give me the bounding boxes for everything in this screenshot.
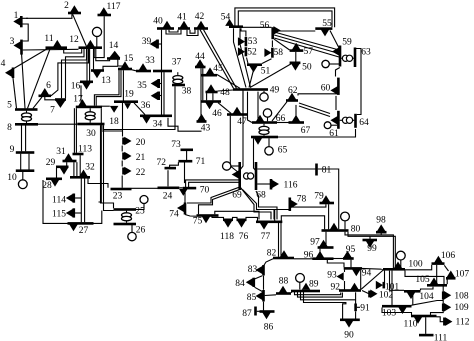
svg-text:72: 72 [157, 158, 167, 168]
bus 63 [354, 48, 357, 68]
load arrow 59 [332, 47, 339, 56]
bus 59 [339, 46, 342, 67]
wire 103-104b [412, 292, 414, 305]
wire 76-77 [246, 217, 258, 221]
svg-text:80: 80 [351, 224, 361, 234]
wire 91-90 [355, 311, 357, 318]
wire 89-92b [298, 291, 343, 297]
wire 18-19w [102, 130, 122, 132]
wire 56-59c [274, 38, 339, 57]
bus 85 [262, 290, 265, 302]
wire 100-103 [391, 271, 393, 306]
svg-text:2: 2 [64, 1, 69, 11]
svg-text:10: 10 [7, 173, 17, 183]
wire 60-62 [298, 94, 338, 96]
wire 6-7 [45, 97, 55, 100]
load arrow 31 [64, 153, 73, 160]
wire 25-27 [94, 211, 102, 224]
bus 107 [446, 277, 456, 280]
svg-text:22: 22 [136, 168, 146, 178]
wire 55-56 [274, 30, 315, 32]
load arrow 85 [256, 292, 263, 301]
load arrow 107 [447, 271, 456, 278]
wire 62-66 [272, 102, 287, 121]
svg-text:12: 12 [69, 35, 79, 45]
bus 102 [368, 291, 371, 298]
svg-text:104: 104 [419, 292, 434, 302]
load arrow 41 [180, 21, 189, 28]
load arrow 78 [291, 200, 298, 209]
wire 100-105 [405, 271, 444, 286]
svg-text:25: 25 [135, 207, 145, 217]
wire 77-82a [278, 223, 280, 257]
bus 108 [442, 292, 445, 300]
wire 29-31 [66, 162, 68, 165]
svg-text:99: 99 [367, 244, 377, 254]
wire 113-32 [79, 155, 81, 176]
svg-text:21: 21 [136, 153, 146, 163]
wire 71-73 [186, 151, 188, 160]
svg-text:111: 111 [434, 334, 448, 341]
bus 90 [340, 319, 360, 322]
bus 77 [256, 221, 282, 224]
wire 83-84 [255, 276, 263, 279]
wire 31-32a [73, 162, 75, 176]
wire 19-20chain [122, 103, 124, 137]
svg-text:48: 48 [220, 88, 230, 98]
load arrow 84 [246, 278, 253, 287]
bus 2 [68, 12, 81, 15]
wire 30-25b [104, 125, 114, 210]
load arrow 21 [124, 152, 131, 161]
bus 45 [201, 74, 218, 77]
load arrow 56 [274, 26, 281, 35]
load arrow 2 [70, 5, 79, 12]
svg-text:102: 102 [379, 291, 394, 301]
bus 91 [354, 304, 357, 312]
svg-text:105: 105 [415, 275, 430, 285]
wire 3-5 [22, 53, 26, 108]
bus 82 [273, 257, 294, 260]
svg-text:114: 114 [52, 195, 66, 205]
wire 28-29 [56, 168, 58, 178]
svg-text:61: 61 [329, 129, 339, 139]
load arrow 88 [279, 286, 288, 293]
bus 116 [270, 179, 273, 190]
svg-text:58: 58 [274, 48, 284, 58]
wire 37-38T [177, 72, 179, 75]
generator G89 [299, 282, 301, 289]
load arrow 19 [124, 103, 131, 109]
wire 79-80 [328, 204, 330, 229]
load arrow 105 [430, 278, 439, 285]
wire 30-38 [103, 86, 175, 129]
svg-text:42: 42 [195, 12, 205, 22]
wire 40-37-34 [161, 30, 163, 115]
bus 57 [290, 49, 304, 52]
wire 46-48a [206, 93, 208, 100]
load arrow 20 [124, 137, 131, 146]
svg-text:94: 94 [362, 269, 372, 279]
bus 34 [140, 115, 172, 118]
svg-text:16: 16 [71, 82, 81, 92]
svg-text:110: 110 [404, 320, 418, 330]
load arrow 114 [66, 194, 73, 203]
svg-text:118: 118 [220, 232, 234, 242]
wire 71-72 [170, 162, 179, 167]
wire 54-55box [235, 8, 335, 27]
svg-text:19: 19 [124, 90, 134, 100]
svg-text:5: 5 [7, 101, 12, 111]
bus 115 [73, 208, 76, 217]
wire 12-16b [89, 49, 91, 81]
bus 69 [238, 162, 241, 190]
wire 22-23 [121, 176, 123, 188]
bus 3 [20, 40, 23, 55]
wire 109-110 [431, 311, 444, 315]
load arrow 109 [444, 303, 451, 312]
wire 40-41u [166, 30, 181, 34]
load arrow 55 [321, 29, 330, 36]
load arrow 99 [366, 241, 375, 248]
wire 81-80 [318, 169, 339, 229]
bus 17 [76, 106, 102, 109]
wire 30-26a [101, 125, 114, 208]
wire 37-39 [158, 43, 162, 45]
wire 105-108 [442, 286, 444, 291]
bus 104 [404, 290, 421, 293]
bus 100 [383, 268, 405, 271]
svg-text:75: 75 [193, 217, 203, 227]
bus 43 [197, 120, 207, 123]
wire 47-49 [242, 90, 244, 114]
generator G10 [22, 171, 24, 180]
wire 20-21 [121, 146, 123, 152]
wire 27-32b [84, 179, 86, 223]
load arrow 76 [237, 221, 246, 228]
bus 14 [107, 57, 120, 60]
wire 21-22 [121, 161, 123, 167]
svg-text:76: 76 [239, 232, 249, 242]
transformer T5-8 [22, 113, 32, 117]
load arrow 83 [256, 266, 263, 275]
bus 74 [184, 203, 187, 215]
wire 17-113a [73, 108, 75, 153]
svg-text:95: 95 [346, 245, 356, 255]
wire 99tap [369, 236, 371, 239]
wire 114tap [74, 197, 82, 199]
svg-text:11: 11 [44, 34, 53, 44]
load arrow 58 [264, 48, 271, 57]
wire 49-66b [257, 92, 259, 122]
wire 59-60 [336, 68, 340, 77]
bus 29 [56, 166, 69, 169]
svg-text:47: 47 [237, 117, 247, 127]
bus 7 [55, 98, 66, 101]
svg-text:74: 74 [169, 210, 179, 220]
svg-text:81: 81 [322, 165, 332, 175]
bus 50 [290, 62, 301, 65]
bus 62 [286, 99, 298, 102]
bus 23 [111, 188, 132, 191]
transformer T17-30 [85, 112, 95, 116]
wire 40-41u2 [169, 30, 178, 32]
load arrow 118 [224, 221, 233, 228]
svg-text:82: 82 [267, 248, 277, 258]
load arrow 100 [394, 262, 403, 269]
bus 30 [77, 123, 104, 126]
bus 105 [427, 284, 447, 287]
wire 92-93 [344, 281, 346, 289]
wire 1-2 [21, 14, 72, 18]
load arrow 96 [316, 251, 325, 258]
bus 71 [178, 160, 192, 163]
wire 15-17b [96, 70, 121, 105]
svg-text:15: 15 [124, 54, 134, 64]
bus 66 [252, 121, 277, 124]
svg-text:106: 106 [441, 251, 456, 261]
svg-text:85: 85 [247, 293, 257, 303]
bus 49 [233, 88, 268, 91]
load arrow 70 [179, 189, 188, 196]
wire 89-90 [304, 291, 346, 318]
bus 21 [122, 153, 125, 160]
wire 55-59 [330, 31, 339, 49]
load arrow 69 [232, 170, 239, 179]
wire 38Tb [177, 83, 179, 86]
bus 39 [156, 40, 159, 49]
svg-text:40: 40 [153, 16, 163, 26]
wire 56-58 [271, 40, 273, 47]
load arrow 11 [53, 40, 62, 47]
svg-text:62: 62 [288, 86, 298, 96]
svg-text:45: 45 [213, 64, 223, 74]
transformer T68-69 [244, 173, 250, 179]
bus 41 [178, 27, 190, 30]
generator G49 [263, 91, 265, 93]
load arrow 75 [202, 216, 211, 223]
wire 9-10b [28, 154, 30, 170]
wire 24-70 [179, 187, 182, 189]
wire 118-76 [233, 217, 238, 219]
svg-text:83: 83 [248, 265, 258, 275]
svg-text:7: 7 [50, 106, 55, 116]
transformer T59-63 [342, 55, 348, 61]
svg-text:38: 38 [182, 86, 192, 96]
load arrow 4 [5, 69, 12, 78]
generator G26 [131, 225, 133, 233]
load arrow 104 [407, 292, 416, 299]
load arrow 42 [197, 21, 206, 28]
wire 77-78 [275, 210, 290, 221]
bus 110 [411, 315, 437, 318]
wire 45-49 [217, 75, 240, 89]
svg-text:92: 92 [331, 283, 341, 293]
wire 49-54b [240, 28, 251, 87]
wire 4-5 [13, 78, 17, 108]
svg-text:70: 70 [200, 185, 210, 195]
svg-text:69: 69 [232, 190, 242, 200]
bus 72 [165, 167, 177, 170]
load arrow 98 [377, 224, 386, 231]
wire 50-49 [250, 64, 291, 88]
svg-text:8: 8 [7, 123, 12, 133]
wire 68-116 [257, 183, 271, 185]
svg-text:79: 79 [314, 192, 324, 202]
wire 68-77 [256, 191, 277, 219]
load arrow 80 [330, 223, 339, 230]
load arrow 22 [124, 167, 131, 176]
load arrow 74 [177, 204, 184, 213]
svg-text:93: 93 [327, 271, 337, 281]
wire 8-9a [21, 126, 23, 152]
load arrow 117 [100, 7, 109, 14]
wire 92-100 [361, 270, 383, 289]
bus 76 [237, 219, 247, 222]
wire 89-91 [301, 291, 356, 299]
wire 35-37 [159, 83, 162, 85]
wire 69-75b [199, 189, 242, 215]
bus 55 [315, 27, 332, 30]
bus 81 [315, 164, 318, 176]
bus 73 [181, 149, 194, 152]
svg-text:71: 71 [196, 157, 206, 167]
svg-text:31: 31 [56, 147, 66, 157]
svg-text:46: 46 [212, 109, 222, 119]
bus 52 [245, 47, 248, 56]
wire 18-23 [99, 108, 102, 202]
wire 56-59b [274, 35, 339, 54]
wire 80-100b [348, 232, 395, 269]
load arrow 34 [142, 117, 151, 124]
svg-text:65: 65 [278, 145, 288, 155]
load arrow 65 [254, 138, 263, 145]
svg-text:6: 6 [46, 81, 51, 91]
wire 56-57 [274, 39, 289, 50]
generator G100 [400, 260, 402, 268]
bus 38 [172, 84, 185, 87]
bus 113 [73, 153, 84, 156]
wire 30-17Tb [89, 119, 91, 123]
bus 42 [194, 27, 208, 30]
svg-text:3: 3 [10, 37, 15, 47]
transformer T25-26 [122, 213, 132, 217]
bus 51 [247, 63, 262, 66]
wire 74-75 [185, 215, 197, 217]
load arrow 44 [196, 59, 205, 66]
wire 8-30 [38, 123, 77, 125]
wire 6-12s [62, 49, 87, 98]
svg-text:84: 84 [235, 279, 245, 289]
load arrow 3 [14, 41, 21, 50]
wire 69-70a [186, 180, 239, 187]
bus 68 [255, 162, 258, 190]
bus 103 [382, 305, 412, 308]
load arrow 45 [206, 67, 215, 74]
bus 15 [118, 68, 132, 71]
wire 92-102 [362, 291, 370, 295]
wire 61-64Tb [352, 119, 354, 121]
svg-text:36: 36 [141, 101, 151, 111]
load arrow 61 [330, 116, 337, 125]
svg-text:14: 14 [109, 41, 119, 51]
load arrow 36 [151, 92, 158, 101]
wire 26-25Tb [126, 221, 128, 223]
bus 9 [16, 151, 35, 154]
wire 70-71 [184, 162, 186, 183]
svg-text:28: 28 [42, 181, 52, 191]
bus 75 [197, 214, 219, 217]
load arrow 57 [292, 43, 301, 50]
generator G25 [136, 204, 144, 210]
wire 104-105 [421, 287, 434, 290]
wire 91stub [357, 306, 360, 308]
load arrow 29 [60, 168, 69, 175]
svg-text:50: 50 [302, 63, 312, 73]
wire 51-49 [249, 66, 255, 87]
wire 5-8T [26, 111, 28, 113]
svg-text:117: 117 [107, 2, 121, 12]
bus 11 [46, 46, 68, 49]
wire 66-65T [263, 124, 265, 126]
svg-text:49: 49 [270, 86, 280, 96]
svg-text:103: 103 [382, 308, 397, 318]
svg-text:53: 53 [248, 37, 258, 47]
wire 42-49b [204, 30, 237, 89]
load arrow 116 [272, 180, 279, 189]
wire 117-12 [94, 16, 104, 57]
wire 80-97 [325, 232, 327, 246]
wire 9-10a [20, 154, 22, 170]
wire 14-15 [118, 59, 123, 68]
load arrow 27 [69, 224, 78, 231]
wire 5-12s [51, 49, 89, 96]
load arrow 97 [319, 240, 328, 247]
wire 5-8Tb [26, 121, 28, 123]
load arrow 77 [260, 223, 269, 230]
bus 47 [227, 113, 247, 116]
wire 93-94 [344, 270, 346, 272]
svg-text:27: 27 [79, 226, 89, 236]
bus 87 [254, 307, 257, 316]
wire 108-109 [442, 300, 444, 304]
wire 103-110 [382, 308, 412, 316]
svg-text:100: 100 [408, 260, 423, 270]
svg-text:39: 39 [142, 37, 152, 47]
bus 80 [322, 229, 349, 232]
wire 92-91 [355, 292, 357, 303]
wire 59-63T [341, 57, 343, 59]
bus 60 [337, 78, 340, 95]
wire 96-95 [334, 258, 344, 260]
load arrow 92 [350, 283, 359, 290]
wire 103-105d [412, 301, 444, 306]
bus 35 [157, 79, 160, 88]
bus 118 [223, 219, 233, 222]
wire 69-70b [189, 182, 239, 187]
load arrow 46 [205, 102, 214, 109]
transformer T37-38 [173, 76, 183, 80]
wire 83-85 [263, 276, 265, 290]
svg-text:57: 57 [304, 47, 314, 57]
bus 109 [442, 304, 445, 312]
svg-text:113: 113 [78, 144, 92, 154]
load arrow 101 [376, 281, 383, 290]
svg-text:4: 4 [1, 59, 6, 69]
wire 48-49 [218, 90, 233, 91]
bus 78 [289, 198, 292, 212]
svg-text:9: 9 [10, 145, 15, 155]
